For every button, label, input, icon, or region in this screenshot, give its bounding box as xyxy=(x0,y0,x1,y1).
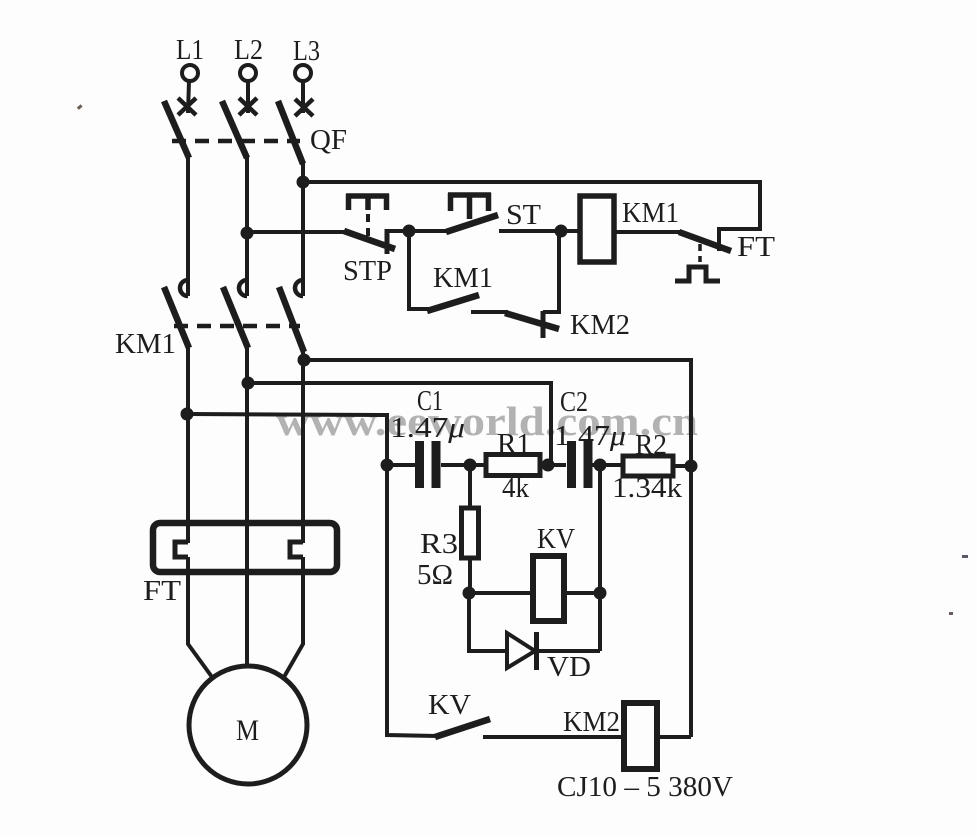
wire KV coil to right node xyxy=(564,591,600,595)
relay coil KV xyxy=(533,523,575,621)
circuit breaker QF xyxy=(164,101,347,164)
resistor R1 4k xyxy=(486,428,540,504)
capacitor C1 1.47u xyxy=(390,385,465,488)
svg-text:5Ω: 5Ω xyxy=(417,559,453,591)
scan speck xyxy=(962,555,968,558)
node junction after STP xyxy=(403,225,416,238)
wire C2 to R2 xyxy=(592,463,623,467)
node junction C2-R2 xyxy=(594,459,607,472)
thermal relay contact FT (NC) xyxy=(675,231,775,281)
scan speck xyxy=(77,104,83,110)
wire phase1 QF to KM1 xyxy=(186,156,190,296)
wire phase3 FT to motor xyxy=(284,557,303,677)
node junction R3 bottom xyxy=(463,587,476,600)
pushbutton ST (NO start) xyxy=(446,193,561,232)
wire KV loop left leg xyxy=(469,593,509,651)
node junction C1 left xyxy=(381,459,394,472)
diode VD xyxy=(507,632,591,683)
svg-text:1.34k: 1.34k xyxy=(612,472,683,504)
svg-text:CJ10 – 5 380V: CJ10 – 5 380V xyxy=(557,771,733,803)
wire R3 to KV coil xyxy=(469,591,533,595)
contact KM1 auxiliary (self hold) xyxy=(409,231,493,311)
svg-text:C2: C2 xyxy=(560,386,588,418)
pushbutton STP (NC stop) xyxy=(343,194,406,287)
svg-text:1.47μ: 1.47μ xyxy=(554,420,626,452)
wire KM2 coil to right bus xyxy=(657,735,691,739)
svg-text:KM1: KM1 xyxy=(622,197,679,229)
svg-text:R1: R1 xyxy=(497,428,531,460)
thermal relay FT heaters xyxy=(143,523,337,607)
wire phase3 QF to KM1 xyxy=(301,162,305,296)
svg-text:FT: FT xyxy=(143,575,181,607)
wire to ST xyxy=(409,229,450,233)
wire phase2 KM1 to FT box xyxy=(245,346,249,667)
node junction phase3 tap xyxy=(298,354,311,367)
node junction R1-C2 xyxy=(542,459,555,472)
wire top control bus xyxy=(303,182,760,251)
svg-text:R2: R2 xyxy=(635,429,667,461)
svg-text:VD: VD xyxy=(547,651,591,683)
svg-text:QF: QF xyxy=(310,124,347,156)
svg-text:L1: L1 xyxy=(176,34,204,66)
wire KV contact to KM2 coil xyxy=(483,735,624,739)
node junction phase2 tap xyxy=(242,377,255,390)
resistor R2 1.34k xyxy=(612,429,683,504)
wire phase3 to right bus xyxy=(304,360,691,737)
node L1 terminal xyxy=(176,34,204,115)
svg-text:L3: L3 xyxy=(293,35,320,67)
node L2 terminal xyxy=(234,34,263,115)
scan speck xyxy=(949,612,953,615)
wire C1 left xyxy=(387,463,415,467)
wire to STP xyxy=(247,230,345,234)
svg-text:L2: L2 xyxy=(234,34,263,66)
node L3 terminal xyxy=(293,35,320,116)
capacitor C2 1.47u xyxy=(554,386,626,488)
svg-text:ST: ST xyxy=(506,199,541,231)
svg-text:KM1: KM1 xyxy=(433,262,493,294)
motor M xyxy=(189,666,307,784)
node junction C1-R1-R3 xyxy=(464,459,477,472)
coil KM1 xyxy=(580,196,679,262)
wire left vertical to KV contact xyxy=(387,465,437,736)
svg-text:KV: KV xyxy=(428,689,471,721)
wire R2 to right bus xyxy=(673,464,691,468)
node junction phase1 tap xyxy=(181,408,194,421)
svg-text:4k: 4k xyxy=(502,472,529,504)
wire C2R2 node down xyxy=(598,465,602,593)
wire phase2 to C2 node xyxy=(248,383,551,465)
wire phase1 FT to motor xyxy=(188,557,212,677)
svg-text:M: M xyxy=(236,714,259,747)
contact KM2 interlock (NC) xyxy=(471,231,630,341)
wire diode to right leg xyxy=(537,649,600,653)
node junction control tap xyxy=(241,227,254,240)
wire phase2 QF to KM1 xyxy=(245,156,249,296)
contactor KM1 main contacts xyxy=(115,280,304,360)
wire KM1 coil to FT contact xyxy=(614,230,681,234)
resistor R3 5ohm xyxy=(417,465,479,593)
wire phase1 to C1 node xyxy=(187,414,387,465)
wire to KM1 coil xyxy=(561,229,580,233)
node junction R2 right xyxy=(685,460,698,473)
node junction KV right xyxy=(594,587,607,600)
svg-text:KV: KV xyxy=(537,523,575,555)
svg-text:KM2: KM2 xyxy=(563,706,620,738)
contact KV (NO) xyxy=(428,689,490,737)
node junction QF output xyxy=(297,176,310,189)
svg-text:1.47μ: 1.47μ xyxy=(390,412,465,444)
svg-text:R3: R3 xyxy=(420,528,458,560)
svg-text:KM1: KM1 xyxy=(115,328,176,360)
wire R1 to C2 xyxy=(540,463,566,467)
svg-text:KM2: KM2 xyxy=(570,309,630,341)
coil KM2 xyxy=(557,703,733,803)
wire KV right node down xyxy=(598,593,602,651)
svg-text:STP: STP xyxy=(343,255,392,287)
wire phase1 KM1 to FT box xyxy=(186,346,190,543)
wire C1 to R1 xyxy=(441,463,486,467)
svg-text:FT: FT xyxy=(737,231,775,263)
node junction after ST xyxy=(555,225,568,238)
wire phase3 KM1 to FT box xyxy=(301,350,305,543)
